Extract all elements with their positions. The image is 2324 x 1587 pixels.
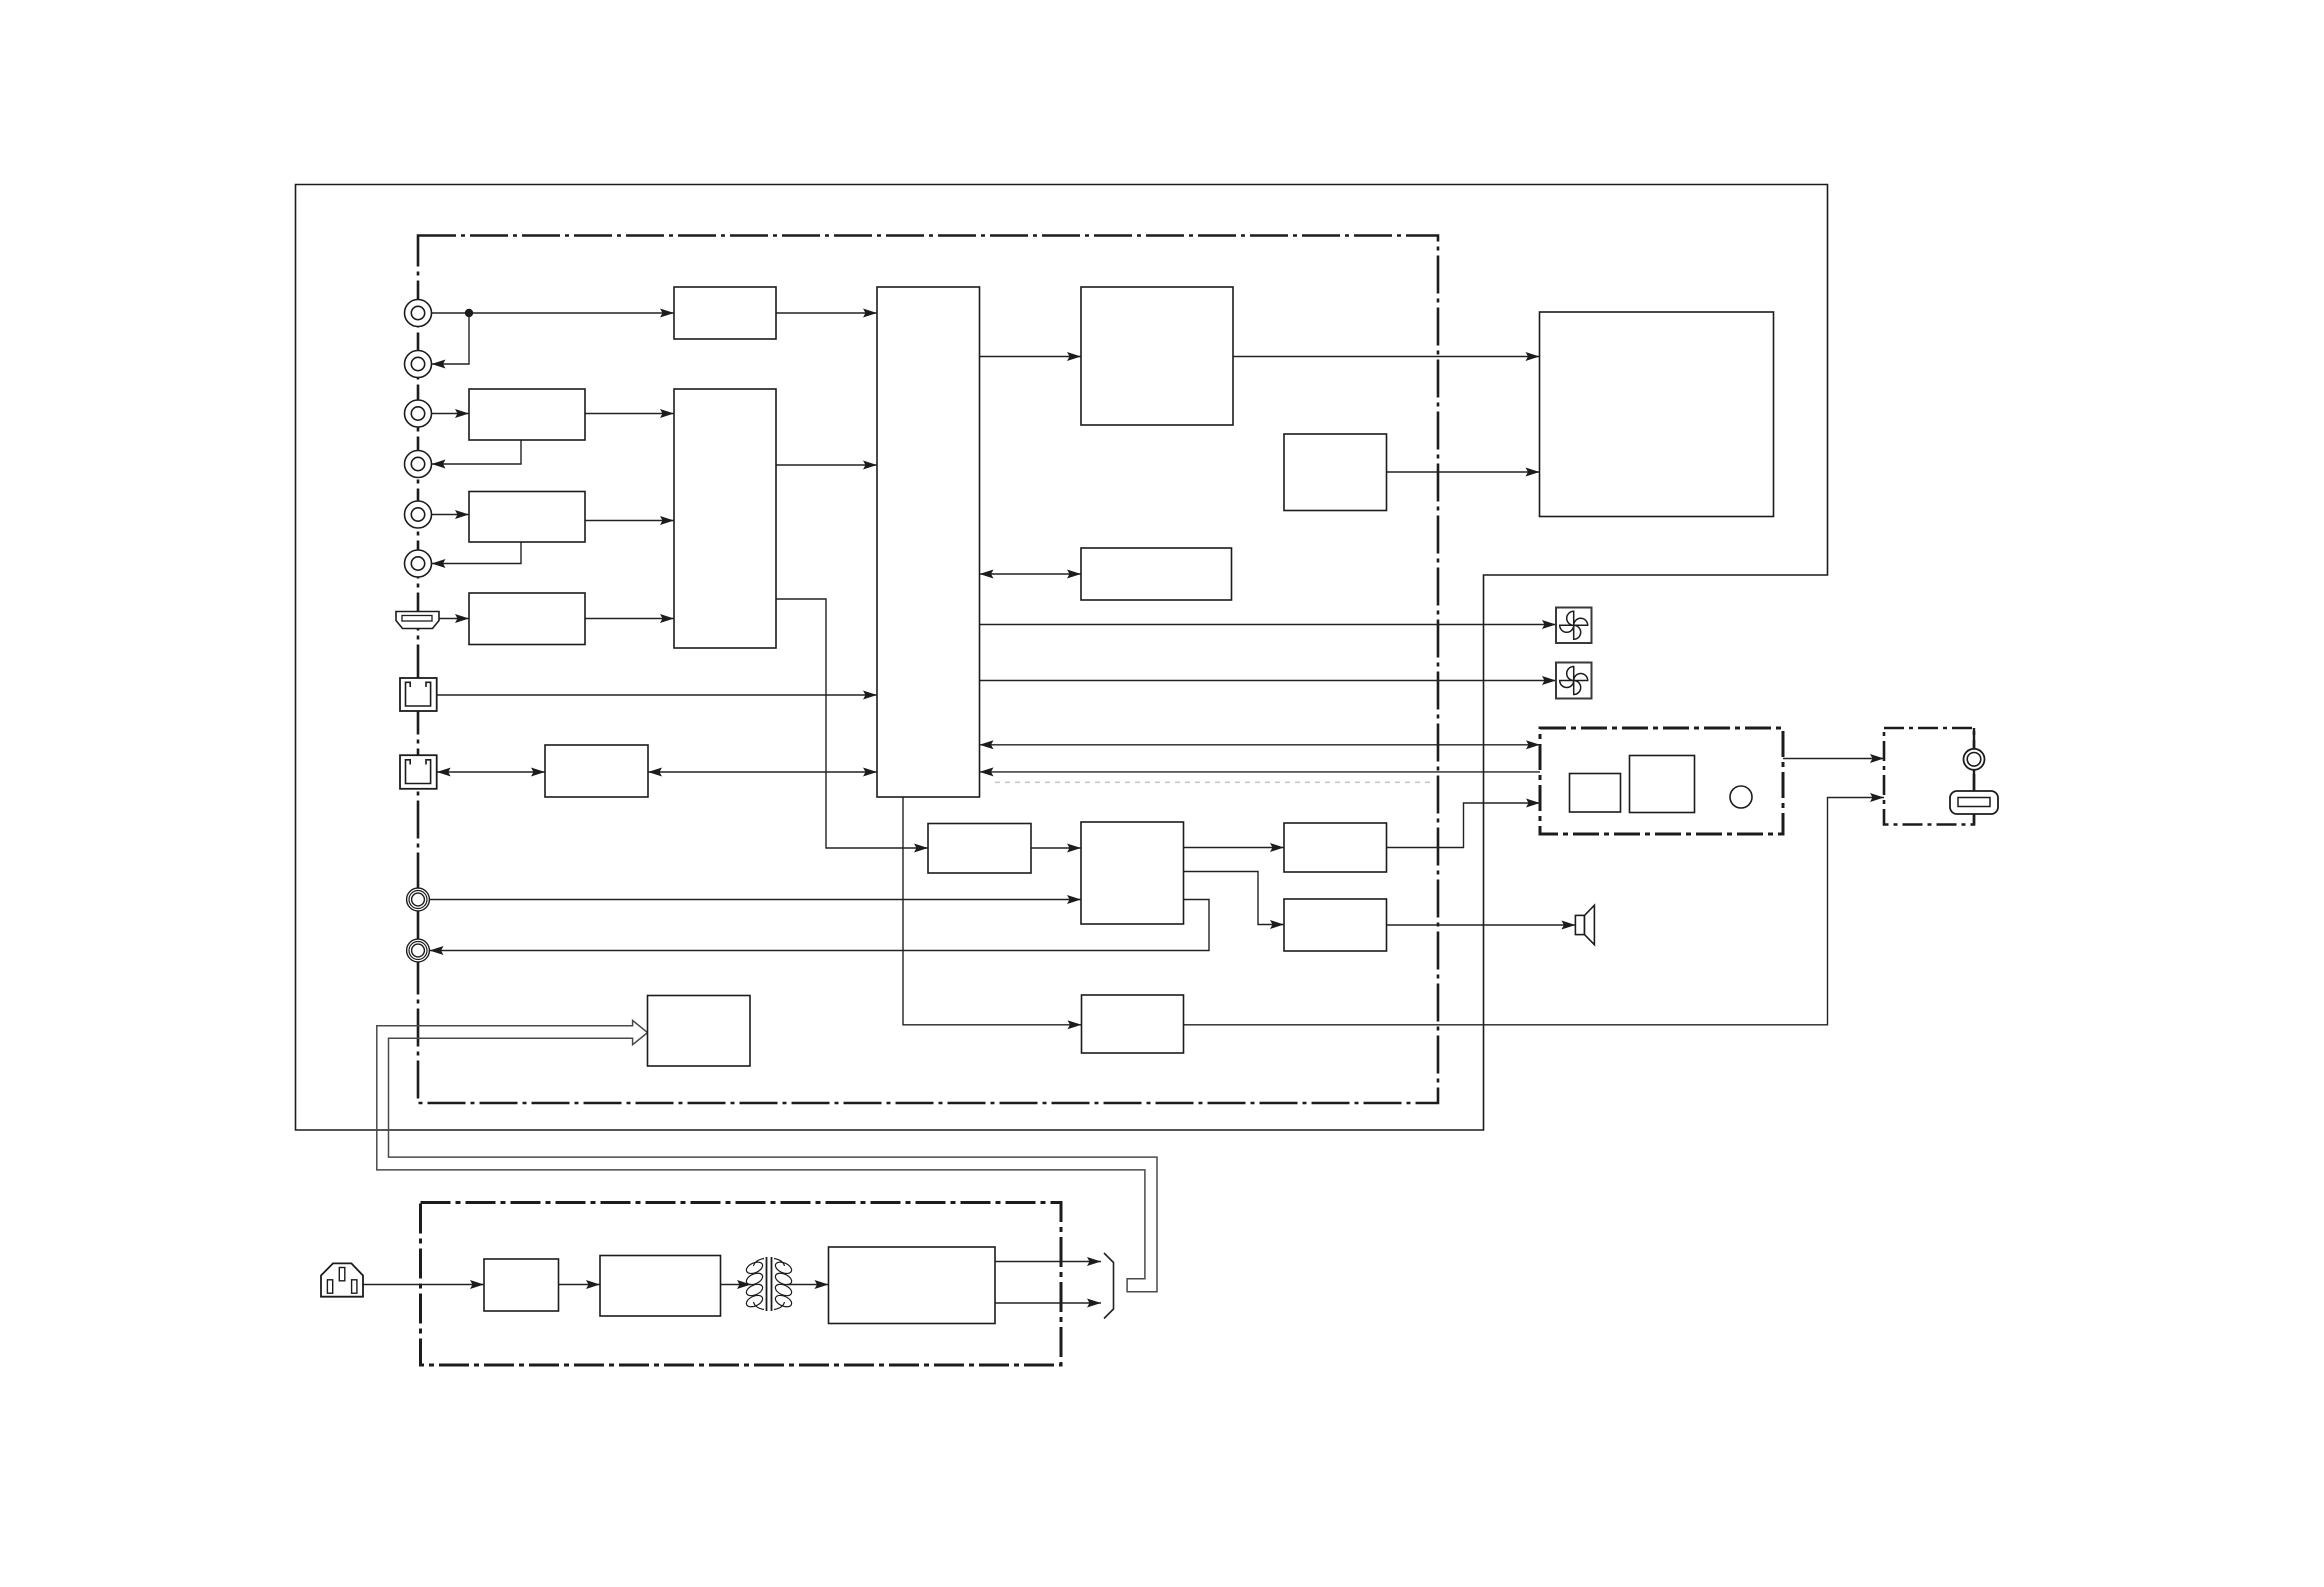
wire box F to box I bidirectional <box>980 573 1082 575</box>
wire C1 to box A <box>432 312 675 314</box>
remote unit dash-dot border <box>1884 728 1974 825</box>
wire box D to box E <box>585 618 674 620</box>
front panel unit dash-dot border <box>1540 728 1783 834</box>
wire box F to fan 1 <box>980 624 1557 626</box>
wire box G to box J <box>1233 356 1540 358</box>
wire HDMI to box D <box>439 618 469 620</box>
wire box F to box Q <box>903 797 1082 1025</box>
speaker <box>1575 905 1594 945</box>
RCA jack C1 <box>405 300 432 327</box>
PSU output brace <box>1104 1253 1114 1319</box>
wire box S2 to transformer <box>721 1284 752 1286</box>
RCA jack C5 <box>405 501 432 528</box>
panel sub-box 1 <box>1570 774 1621 813</box>
faint dashed wire F to panel area <box>995 781 1432 783</box>
outer chassis border <box>296 185 1828 1131</box>
wire C3 to box B <box>432 413 470 415</box>
transformer T1 <box>745 1257 794 1311</box>
audio jack C7 <box>407 888 430 911</box>
box P <box>648 996 751 1067</box>
remote circle connector <box>1964 749 1985 770</box>
box O <box>1284 899 1387 951</box>
box M <box>1081 822 1184 924</box>
wire box C to C6 <box>432 542 522 564</box>
box H <box>1284 434 1387 511</box>
wire box E to box F <box>776 464 877 466</box>
wire box F to box G <box>980 356 1082 358</box>
wire PSU output 1 <box>995 1261 1101 1263</box>
wire box M to box N <box>1184 847 1285 849</box>
RJ45 jack 2 <box>400 755 437 789</box>
HDMI connector <box>396 612 439 629</box>
wire box M to box O <box>1184 872 1285 925</box>
box B <box>469 389 585 440</box>
wire box Q to remote unit <box>1184 798 1885 1025</box>
AC inlet plug <box>321 1263 363 1296</box>
wire RJ45-2 to box K bidirectional <box>437 771 545 773</box>
remote unit solid right edge <box>1973 728 1975 825</box>
panel sub-box 2 <box>1630 756 1695 813</box>
wire PSU output 2 <box>995 1302 1101 1304</box>
remote USB connector <box>1950 791 1998 814</box>
box F <box>877 287 980 797</box>
box I <box>1081 548 1232 600</box>
RJ45 jack 1 <box>400 678 437 711</box>
wire box O to speaker <box>1387 924 1576 926</box>
box E <box>674 389 776 648</box>
wire box L to box M <box>1031 847 1081 849</box>
wire box F to fan 2 <box>980 680 1557 682</box>
RCA jack C2 <box>405 351 432 378</box>
box S3 <box>829 1247 996 1324</box>
box G <box>1081 287 1233 425</box>
wire box B to box E <box>585 413 674 415</box>
wire box C to box E <box>585 520 674 522</box>
junction node <box>465 309 473 317</box>
RCA jack C4 <box>405 451 432 478</box>
wire box F to panel bidirectional <box>980 744 1541 746</box>
wire C5 to box C <box>432 514 470 516</box>
box J <box>1540 312 1774 517</box>
wire box E to box L <box>776 599 928 848</box>
box C <box>469 492 585 543</box>
wire panel to box F <box>980 771 1541 773</box>
main board dash-dot border <box>418 236 1438 1104</box>
box N <box>1284 823 1387 872</box>
wire RJ45-1 to box F <box>437 694 877 696</box>
power bus (hollow outline with open arrow into box P) <box>377 1020 1157 1291</box>
box S1 <box>484 1259 559 1311</box>
wire C7 to box M <box>430 899 1082 901</box>
RCA jack C3 <box>405 400 432 427</box>
fan 1 <box>1556 608 1592 644</box>
panel indicator circle <box>1730 786 1752 808</box>
fan 2 <box>1556 663 1592 699</box>
wire panel to remote unit <box>1783 758 1884 760</box>
wire AC inlet to box S1 <box>363 1284 484 1286</box>
wire junction to C2 <box>432 313 470 364</box>
wire box N to panel <box>1387 803 1541 848</box>
wire box B to C4 <box>432 440 522 464</box>
wire box H to box J <box>1387 471 1540 473</box>
box A <box>674 287 776 339</box>
wire transformer to box S3 <box>787 1284 829 1286</box>
power supply board dash-dot border <box>421 1203 1062 1366</box>
wire box A to box F <box>776 312 877 314</box>
RCA jack C6 <box>405 550 432 577</box>
wire box M to C8 <box>430 900 1210 951</box>
wire box S1 to box S2 <box>559 1284 601 1286</box>
box Q <box>1082 995 1184 1053</box>
box D <box>469 593 585 645</box>
box S2 <box>600 1256 721 1317</box>
wire box K to box F bidirectional <box>648 771 877 773</box>
box K <box>545 745 648 797</box>
box L <box>928 824 1031 874</box>
audio jack C8 <box>407 939 430 962</box>
